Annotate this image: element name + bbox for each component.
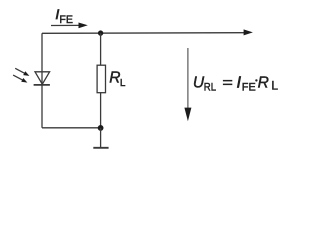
svg-text:L: L (120, 78, 126, 89)
label R_L (109, 70, 126, 90)
ground (93, 147, 108, 149)
wire resistor bottom (100, 92, 102, 128)
wire bottom (42, 127, 101, 129)
svg-text:FE: FE (59, 14, 73, 26)
wire ground lead (100, 128, 102, 147)
svg-text:RL: RL (204, 81, 216, 93)
wire resistor top (100, 33, 102, 65)
node top junction (98, 30, 103, 35)
wire left (41, 33, 43, 128)
current arrow I_FE (51, 23, 88, 29)
svg-text:R: R (258, 75, 269, 92)
wire top (42, 32, 245, 35)
svg-text:FE: FE (242, 81, 256, 93)
svg-text:L: L (271, 78, 278, 92)
voltage arrow U_RL (184, 48, 191, 121)
formula U_RL = I_FE . R_L (193, 75, 279, 94)
light arrow 2 (13, 75, 27, 83)
node bottom junction (98, 125, 104, 131)
resistor R_L (97, 65, 105, 93)
light arrow 1 (15, 68, 29, 76)
label I_FE (55, 6, 73, 26)
photodiode D1 triangle (35, 72, 50, 84)
output arrowhead (244, 29, 253, 35)
svg-text:R: R (109, 70, 120, 87)
photodiode cathode bar (34, 84, 50, 86)
